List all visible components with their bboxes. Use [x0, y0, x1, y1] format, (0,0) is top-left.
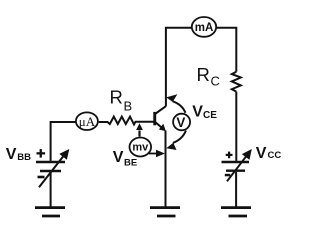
svg-text:C: C [211, 74, 220, 89]
svg-text:B: B [124, 99, 133, 114]
svg-text:R: R [110, 87, 123, 108]
svg-text:mv: mv [132, 142, 149, 154]
svg-text:CE: CE [203, 110, 217, 121]
svg-text:BE: BE [124, 158, 137, 169]
svg-text:V: V [256, 145, 267, 162]
svg-text:μA: μA [79, 114, 96, 129]
svg-text:V: V [113, 149, 124, 166]
svg-text:V: V [6, 146, 17, 163]
svg-text:CC: CC [268, 150, 282, 161]
svg-text:V: V [176, 115, 185, 130]
svg-text:V: V [192, 103, 203, 120]
svg-text:mA: mA [195, 22, 214, 34]
svg-text:R: R [197, 64, 210, 85]
svg-text:BB: BB [17, 152, 31, 163]
